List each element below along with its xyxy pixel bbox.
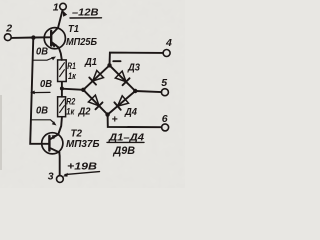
terminal 2	[4, 34, 11, 41]
svg-text:1к: 1к	[68, 71, 77, 82]
diode D4	[114, 96, 128, 110]
wire T2 collector to terminal 3	[58, 152, 60, 175]
svg-text:Д3: Д3	[127, 62, 140, 73]
svg-text:6: 6	[162, 113, 168, 125]
transistor T2	[42, 133, 63, 154]
diode D1	[89, 71, 103, 85]
terminal 1	[60, 3, 67, 10]
wire input to bases	[12, 36, 51, 39]
junction mid node	[60, 87, 64, 91]
svg-text:2: 2	[5, 22, 12, 34]
svg-text:0В: 0В	[36, 47, 48, 58]
wire T1 emitter to R1	[59, 48, 62, 60]
background paper	[0, 0, 185, 188]
net label +19V	[63, 173, 68, 177]
svg-text:3: 3	[48, 171, 54, 183]
svg-text:Д1: Д1	[84, 57, 97, 68]
transistor T1	[44, 28, 65, 49]
diode D2	[88, 95, 102, 109]
svg-text:5: 5	[161, 77, 167, 89]
terminal 3	[57, 176, 64, 183]
wire base bus down	[30, 38, 49, 144]
terminal 6	[162, 124, 169, 131]
bridge edge L-T wire	[83, 65, 109, 90]
wire bridge top to terminal 4	[110, 53, 164, 66]
bridge edge R-B wire	[108, 91, 136, 115]
wire mid node to bridge	[62, 89, 83, 90]
svg-text:Д9В: Д9В	[113, 145, 136, 157]
svg-text:–12В: –12В	[72, 7, 99, 19]
resistor R2	[58, 97, 66, 117]
svg-text:+19В: +19В	[67, 162, 97, 173]
wire R2 to T2 emitter	[58, 117, 62, 134]
svg-text:МП37Б: МП37Б	[66, 138, 100, 150]
wire mid node to R2	[61, 89, 63, 97]
svg-text:4: 4	[165, 37, 172, 49]
junction input node	[31, 35, 35, 39]
svg-text:МП25Б: МП25Б	[66, 36, 97, 48]
svg-text:0В: 0В	[36, 105, 48, 116]
terminal 4	[163, 50, 170, 57]
bridge edge T-R wire	[110, 65, 136, 91]
junction bridge right	[133, 89, 137, 93]
junction bridge left	[81, 88, 85, 92]
terminal 5	[161, 89, 168, 96]
resistor R1	[58, 60, 67, 82]
polarity minus	[113, 60, 120, 62]
svg-text:Д4: Д4	[124, 107, 137, 118]
svg-text:0В: 0В	[40, 79, 52, 90]
wire bridge bottom to terminal 6	[108, 115, 162, 128]
bridge edge L-B wire	[83, 90, 107, 115]
svg-text:+: +	[112, 114, 118, 126]
wire terminal1 to T1 collector	[58, 10, 63, 28]
svg-text:Т1: Т1	[68, 23, 79, 35]
svg-text:1к: 1к	[66, 106, 75, 117]
junction bridge top	[107, 63, 111, 67]
wire bridge right to terminal 5	[135, 91, 161, 92]
svg-text:1: 1	[53, 2, 59, 14]
wire R1 to mid node	[61, 82, 63, 88]
junction bridge bottom	[105, 112, 109, 116]
diode D3	[115, 71, 129, 85]
svg-text:Д2: Д2	[78, 107, 91, 118]
